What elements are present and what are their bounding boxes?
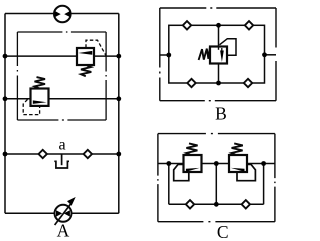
wire: A bottom edge left of motor bbox=[5, 212, 55, 214]
node: junction left on line 2 bbox=[3, 96, 8, 101]
wire: B return drop below valve bbox=[218, 64, 220, 84]
node: junction C top-middle bbox=[214, 161, 219, 166]
orifice diamond left on line 3 bbox=[39, 150, 47, 158]
orifice diamond bottom-right B bbox=[244, 79, 252, 87]
wire: C left drop bbox=[168, 164, 170, 205]
node: junction B right port bbox=[262, 52, 267, 57]
wire: A top edge right of pump bbox=[70, 13, 118, 15]
enclosure B bottom side (chain line) bbox=[160, 100, 276, 102]
pump/motor P1 (top circle with two inward triangles) bbox=[54, 6, 71, 23]
spring of V2 bbox=[35, 77, 46, 88]
orifice diamond top-right B bbox=[245, 21, 253, 29]
spring of V3 bbox=[199, 47, 210, 60]
wire: C middle drop bbox=[215, 164, 217, 205]
node: junction top of B drop bbox=[216, 23, 221, 28]
orifice diamond right on line 3 bbox=[84, 150, 92, 158]
svg-text:C: C bbox=[217, 222, 229, 241]
node: junction right on line 3 bbox=[116, 152, 121, 157]
valve V5 body bbox=[229, 155, 247, 172]
node: junction C bottom-middle bbox=[214, 202, 219, 207]
svg-text:a: a bbox=[58, 136, 65, 153]
node: junction C top-left bbox=[166, 161, 171, 166]
wire: C right drop bbox=[263, 164, 265, 205]
svg-text:B: B bbox=[215, 103, 227, 123]
enclosure A bottom side (chain line) bbox=[17, 119, 106, 121]
node: junction right on line 1 bbox=[116, 54, 121, 59]
drain pocket of valve V4 bbox=[174, 164, 189, 180]
enclosure A top side (chain line) bbox=[17, 31, 106, 33]
relief valve V1 body bbox=[77, 48, 94, 65]
orifice diamond top-left B bbox=[183, 21, 191, 29]
spring of V1 bbox=[81, 66, 91, 77]
wire: B left port stub bbox=[160, 54, 169, 56]
node: junction C top-right bbox=[261, 161, 266, 166]
enclosure C left side (chain line) bbox=[157, 134, 159, 222]
drain pocket of valve V5 bbox=[237, 164, 255, 180]
wire: C top rail bbox=[158, 163, 275, 165]
pilot line of relief valve V1 (dashed) bbox=[86, 40, 106, 56]
node: junction left on line 3 bbox=[3, 152, 8, 157]
variable motor M1 (bottom circle with inward triangles and slash arrow) bbox=[55, 197, 76, 225]
enclosure B left side (chain line) bbox=[159, 8, 161, 101]
svg-text:A: A bbox=[57, 220, 70, 240]
enclosure A left side (chain line) bbox=[16, 32, 18, 120]
wire: C bottom rail bbox=[169, 203, 264, 205]
enclosure C top side (chain line) bbox=[158, 133, 275, 135]
enclosure B top side (chain line) bbox=[160, 7, 276, 9]
pilot line of valve V2 (dashed) bbox=[23, 99, 39, 114]
wire: B supply drop above valve bbox=[218, 25, 220, 49]
wire: B right port stub bbox=[265, 54, 277, 56]
wire: A bottom edge right of motor bbox=[71, 212, 119, 214]
node: junction B left port bbox=[166, 53, 171, 58]
orifice diamond bottom-right C bbox=[242, 200, 250, 208]
wire: A branch line 3 (port a line) bbox=[5, 153, 119, 155]
relief valve V3 body bbox=[210, 47, 227, 64]
wire: A branch line 1 (through relief valve V1) bbox=[5, 55, 119, 57]
wire: A branch line 2 (through valve V2) bbox=[5, 98, 119, 100]
pilot loop of relief valve V3 bbox=[220, 39, 237, 56]
enclosure A right side (chain line) bbox=[105, 32, 107, 120]
enclosure C bottom side (chain line) bbox=[158, 221, 275, 223]
node: junction bottom of B drop bbox=[216, 81, 221, 86]
node: junction left on line 1 bbox=[3, 54, 8, 59]
enclosure B right side (chain line) bbox=[275, 8, 277, 101]
spring of V5 bbox=[231, 143, 242, 155]
tank T (vented reservoir under port a) bbox=[54, 154, 69, 168]
valve V4 body bbox=[184, 155, 202, 172]
node: junction right on line 2 bbox=[116, 96, 121, 101]
wire: B inner loop bbox=[169, 25, 265, 83]
enclosure C right side (chain line) bbox=[274, 134, 276, 222]
wire: A outer loop left edge bbox=[4, 14, 6, 214]
orifice diamond bottom-left C bbox=[186, 200, 194, 208]
spring of V4 bbox=[186, 143, 197, 155]
wire: A top edge left of pump bbox=[5, 13, 54, 15]
orifice diamond bottom-left B bbox=[187, 79, 195, 87]
valve V2 body bbox=[31, 89, 49, 106]
wire: A outer loop right edge bbox=[118, 14, 120, 214]
